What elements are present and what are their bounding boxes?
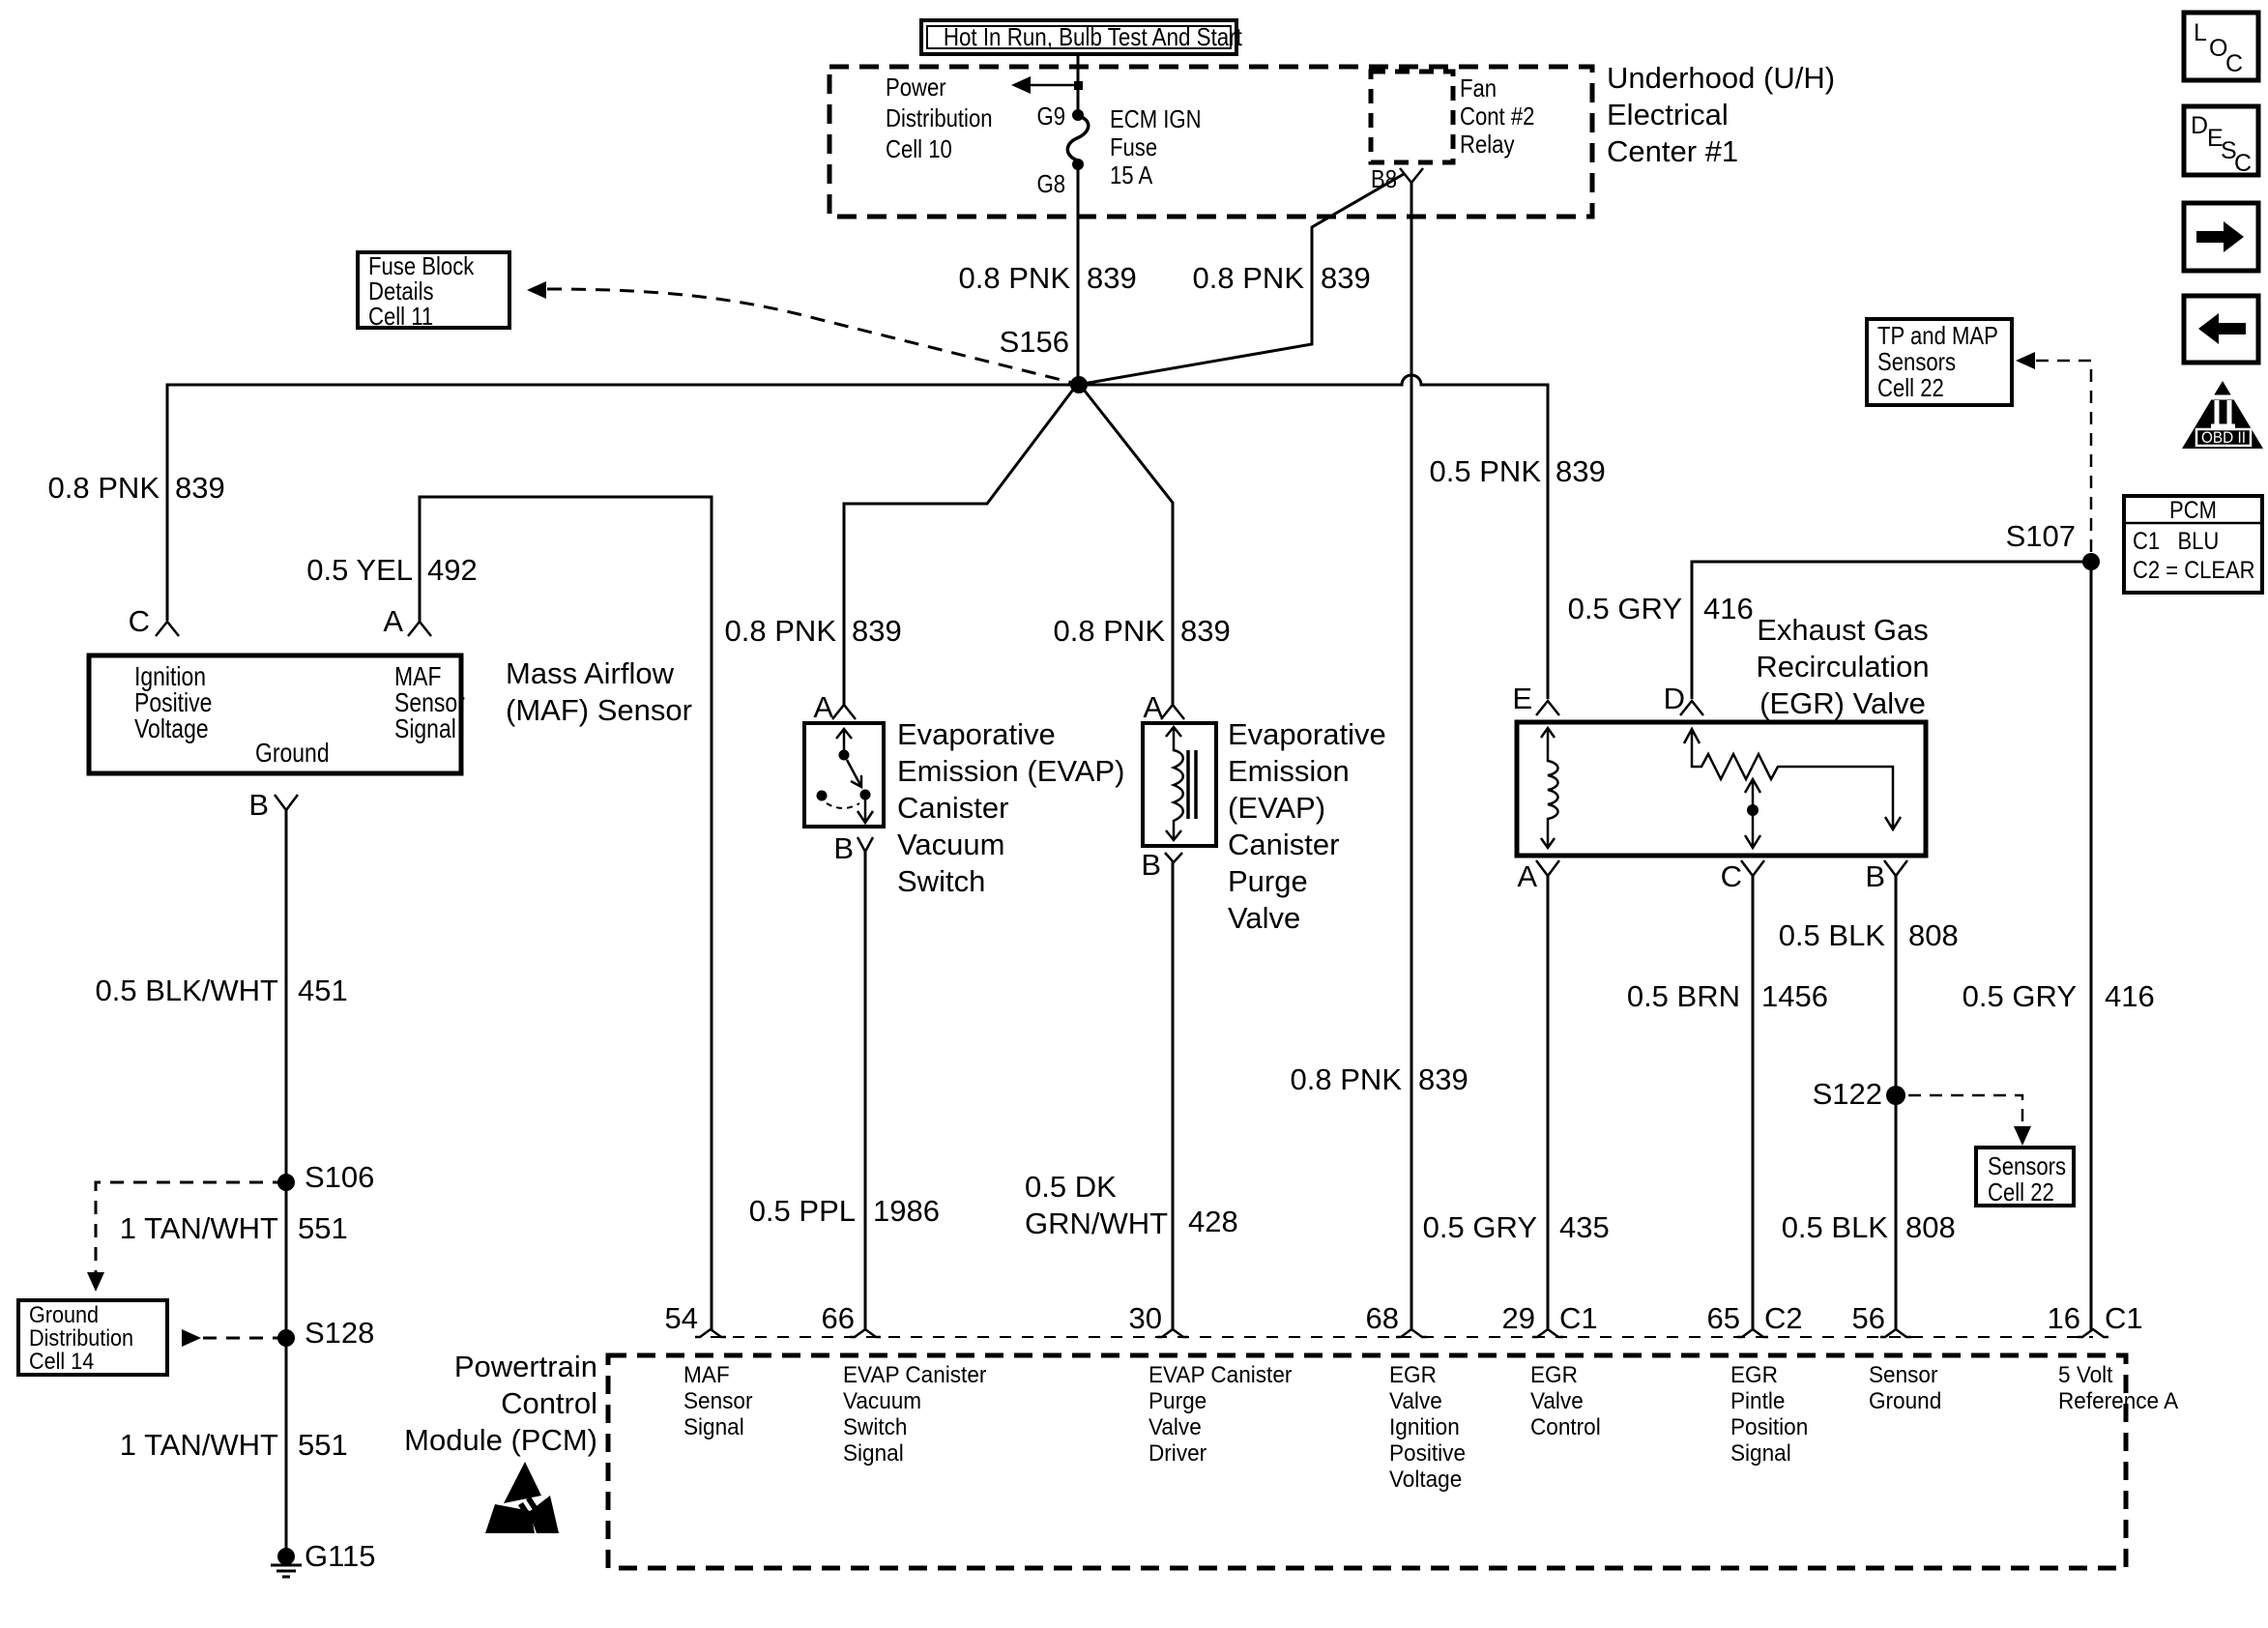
pin number 66: [758, 1302, 855, 1335]
wire label 0.5 PPL 1986: [662, 1195, 856, 1228]
terminal label B (purge valve): [1064, 849, 1161, 882]
dashed box: Powertrain Control Module (PCM): [608, 1355, 2126, 1568]
PCM pin label: EGR Valve Ignition Positive Voltage: [1389, 1362, 1466, 1493]
connector C chevron (MAF): [156, 622, 179, 636]
pin number 16 C1: [1984, 1302, 2080, 1335]
pin number 65 C2: [1643, 1302, 1740, 1335]
ground G115: [271, 1548, 302, 1577]
vacuum switch: arm pivot and contacts: [817, 729, 874, 823]
box: EVAP canister vacuum switch: [804, 723, 884, 827]
wire label 1 TAN/WHT 551 (upper): [85, 1212, 278, 1245]
label: MAF box pins: [134, 663, 212, 741]
wire: S107 down to PCM pin 16: [2090, 562, 2093, 1330]
node label S107: [1882, 520, 2076, 553]
pin number 30: [1065, 1302, 1162, 1335]
connector C chevron (EGR): [1741, 860, 1764, 876]
dashed box: Underhood Electrical Center #1: [829, 67, 1592, 217]
box: Fuse Block Details Cell 11: [358, 252, 509, 328]
dashed wire: S122 to Sensors Cell 22: [1908, 1095, 2022, 1125]
arrow: down into Ground Distribution: [87, 1272, 104, 1292]
PCM pin label: EGR Valve Control: [1530, 1362, 1601, 1440]
PCM pin label: EVAP Canister Purge Valve Driver: [1149, 1362, 1292, 1467]
box: EGR valve: [1517, 722, 1926, 856]
node S107: [2082, 553, 2100, 570]
ground label G115: [305, 1540, 376, 1573]
connector E chevron (EGR): [1536, 701, 1559, 715]
pin number 54: [601, 1302, 698, 1335]
label: Evaporative Emission (EVAP) Canister Purge Valve: [1228, 716, 1386, 937]
connector chevron PCM pin 66: [850, 1329, 881, 1337]
dashed wire: S106 to Ground Distribution: [96, 1182, 286, 1272]
arrow: to Fuse Block Details: [527, 281, 546, 299]
terminal label A (purge valve): [1066, 691, 1163, 724]
wire: EGR D to S107: [1692, 562, 2091, 699]
node label S122: [1689, 1078, 1882, 1111]
label: TP and MAP Sensors Cell 22: [1877, 323, 1998, 401]
symbol: ESD static sensitive device: [485, 1462, 559, 1533]
wire label 0.8 PNK 839 (pin 68): [1208, 1063, 1402, 1096]
node label S128: [305, 1317, 374, 1350]
connector chevron PCM pin 16: [2078, 1329, 2108, 1337]
terminal label A (MAF): [306, 605, 403, 638]
wire: S156 branch to EVAP vacuum switch A: [844, 390, 1073, 705]
connector chevron PCM pin 54: [695, 1329, 726, 1337]
wire: vacuum switch B to PCM pin 66: [864, 852, 867, 1330]
terminal label B (EGR): [1788, 860, 1885, 893]
wire label 0.8 PNK 839 (fuse feed): [877, 262, 1070, 295]
wire label 1 TAN/WHT 551 (lower): [85, 1429, 278, 1462]
wire label 0.5 PNK 839 (EGR E): [1348, 455, 1541, 488]
wire label 0.5 BLK 808 (EGR B upper): [1692, 919, 1885, 952]
icon: LOC box: [2184, 13, 2258, 80]
arrow: to TP and MAP Sensors: [2016, 352, 2035, 369]
terminal label E (EGR): [1436, 683, 1532, 715]
connector chevron PCM pin 65: [1737, 1329, 1768, 1337]
wire label 0.5 DK GRN/WHT 428: [1025, 1169, 1168, 1242]
icon: back arrow box: [2184, 296, 2258, 363]
connector chevron PCM pin 29: [1532, 1329, 1563, 1337]
wire label 0.5 GRY 435 (EGR A): [1344, 1211, 1537, 1244]
connector chevron PCM pin 56: [1880, 1329, 1911, 1337]
wire label 0.5 YEL 492 (MAF signal): [219, 554, 413, 587]
wire: battery feed from Hot In Run down to S156: [1077, 54, 1080, 385]
pin number 56: [1788, 1302, 1885, 1335]
wire label 0.8 PNK 839 (MAF ignition): [0, 472, 160, 505]
terminal label A (vacuum switch): [737, 691, 833, 724]
label: Ground Distribution Cell 14: [29, 1304, 133, 1374]
pin number 68: [1302, 1302, 1399, 1335]
junction: feed tap: [1074, 81, 1083, 90]
wire label 0.8 PNK 839 (B8 feed): [1111, 262, 1304, 295]
arrow: down into Sensors Cell 22: [2014, 1126, 2031, 1146]
wire: B8 branch to S156: [1083, 174, 1404, 384]
PCM pin label: 5 Volt Reference A: [2058, 1362, 2178, 1414]
wire: S156 branch to EVAP purge valve A: [1084, 390, 1173, 705]
label: Mass Airflow (MAF) Sensor: [506, 655, 692, 729]
node S122: [1886, 1086, 1905, 1105]
wire: MAF B ground down to G115: [285, 810, 288, 1556]
label: Underhood (U/H) Electrical Center #1: [1607, 60, 1835, 170]
box: Sensors Cell 22: [1976, 1148, 2074, 1206]
wire label 0.5 BRN 1456 (EGR C): [1547, 980, 1740, 1013]
node label S106: [305, 1161, 374, 1194]
EGR valve: pintle position potentiometer: [1684, 729, 1901, 848]
dashed box: Fan Cont #2 Relay: [1371, 72, 1453, 162]
label: PCM legend: [2133, 498, 2254, 523]
connector D chevron (EGR): [1680, 701, 1703, 715]
label: Sensors Cell 22: [1988, 1153, 2066, 1206]
node label S156: [876, 326, 1069, 359]
connector A chevron (EGR): [1536, 860, 1559, 876]
terminal label C (MAF): [53, 605, 150, 638]
terminal label D (EGR): [1588, 683, 1685, 715]
label: ECM IGN Fuse 15 A: [1110, 105, 1202, 189]
arrow: from Ground Distribution to S128: [182, 1329, 201, 1347]
pin label B8: [1329, 165, 1397, 193]
wire: arrow to Power Distribution: [1011, 76, 1078, 94]
connector chevron PCM pin 68: [1396, 1329, 1427, 1337]
box: Ground Distribution Cell 14: [18, 1300, 167, 1375]
icon: forward arrow box: [2184, 203, 2258, 271]
PCM pin label: MAF Sensor Signal: [683, 1362, 752, 1440]
wire label 0.5 GRY 416 (pin 16): [1883, 980, 2077, 1013]
wire: EGR A to PCM pin 29: [1547, 875, 1550, 1330]
connector: PCM C1/C2 connector face (thin dashed): [711, 1336, 2093, 1338]
fuse ECM IGN 15A: terminal G9: [1072, 109, 1084, 121]
pin number 29 C1: [1439, 1302, 1535, 1335]
connector B chevron (MAF ground): [275, 795, 298, 810]
node S128: [277, 1329, 295, 1347]
terminal label C (EGR): [1645, 860, 1742, 893]
PCM pin label: EVAP Canister Vacuum Switch Signal: [843, 1362, 986, 1467]
node S106: [277, 1174, 295, 1191]
purge valve: solenoid coil and core: [1166, 727, 1196, 840]
label: Exhaust Gas Recirculation (EGR) Valve: [1663, 612, 2022, 722]
connector B chevron (purge valve): [1165, 853, 1182, 862]
wire: main 839 bus from S156 left to MAF C drop: [167, 385, 1079, 621]
icon text DESC: [2191, 112, 2208, 140]
box: TP and MAP Sensors Cell 22: [1867, 319, 2012, 405]
label: Fan Cont #2 Relay: [1460, 74, 1534, 159]
dashed wire: S107 reference to TP and MAP Sensors: [2036, 361, 2091, 553]
icon text LOC: [2194, 19, 2207, 47]
icon: OBD II triangle: [2182, 381, 2263, 449]
icon text OBD II: [2199, 429, 2248, 446]
connector chevron PCM pin 30: [1157, 1329, 1188, 1337]
label: Power Distribution Cell 10: [886, 72, 993, 164]
wire label 0.5 GRY 416 (EGR D): [1489, 593, 1682, 625]
fuse ECM IGN 15A: element: [1067, 116, 1088, 160]
connector A chevron (purge valve): [1161, 705, 1184, 719]
terminal label A (EGR): [1440, 860, 1537, 893]
dashed wire: Fuse Block Details reference to S156: [547, 289, 1073, 383]
wire label 0.5 BLK 808 (pin 56): [1695, 1211, 1888, 1244]
pin label G9: [998, 102, 1065, 131]
pin label G8: [998, 170, 1065, 198]
label: Hot In Run, Bulb Test And Start: [944, 22, 1214, 52]
label: Powertrain Control Module (PCM): [307, 1349, 597, 1459]
icon: DESC box: [2184, 106, 2258, 175]
fuse ECM IGN 15A: terminal G8: [1072, 159, 1084, 170]
wire: EGR C to PCM pin 65: [1752, 875, 1755, 1330]
box: MAF sensor: [89, 655, 461, 773]
terminal label B (MAF): [172, 789, 269, 822]
wire: MAF A signal up-over-down to PCM pin 54: [420, 497, 712, 1330]
EGR valve: solenoid coil E-A: [1541, 728, 1558, 848]
connector B chevron (vacuum switch): [858, 837, 873, 852]
dashed wire: Ground Distribution to S128: [203, 1337, 280, 1340]
wire: B8 down to PCM pin 68: [1410, 183, 1413, 1330]
PCM pin label: EGR Pintle Position Signal: [1730, 1362, 1808, 1467]
connector B8 chevron: [1400, 168, 1423, 183]
connector A chevron (vacuum switch): [832, 705, 856, 719]
PCM pin label: Sensor Ground: [1869, 1362, 1941, 1414]
node S156: [1070, 376, 1088, 393]
box: PCM connector legend: [2124, 496, 2262, 593]
box: EVAP canister purge valve: [1143, 723, 1216, 846]
label: Fuse Block Details Cell 11: [368, 253, 474, 329]
wire label 0.5 BLK/WHT 451: [85, 974, 278, 1007]
wire label 0.8 PNK 839 (vacuum switch): [643, 615, 836, 648]
terminal label B (vacuum switch): [757, 832, 854, 865]
box: Hot In Run, Bulb Test And Start: [921, 20, 1236, 54]
wire: EGR B sensor ground to PCM pin 56: [1895, 875, 1898, 1330]
connector A chevron (MAF): [408, 622, 431, 636]
connector B chevron (EGR): [1884, 860, 1907, 876]
wire: main 839 bus right with hop over B8 wire: [1079, 375, 1548, 699]
wire label 0.8 PNK 839 (purge valve): [972, 615, 1165, 648]
wire: purge valve B to PCM pin 30: [1172, 861, 1175, 1330]
label: Evaporative Emission (EVAP) Canister Vacuum Switch: [897, 716, 1124, 900]
